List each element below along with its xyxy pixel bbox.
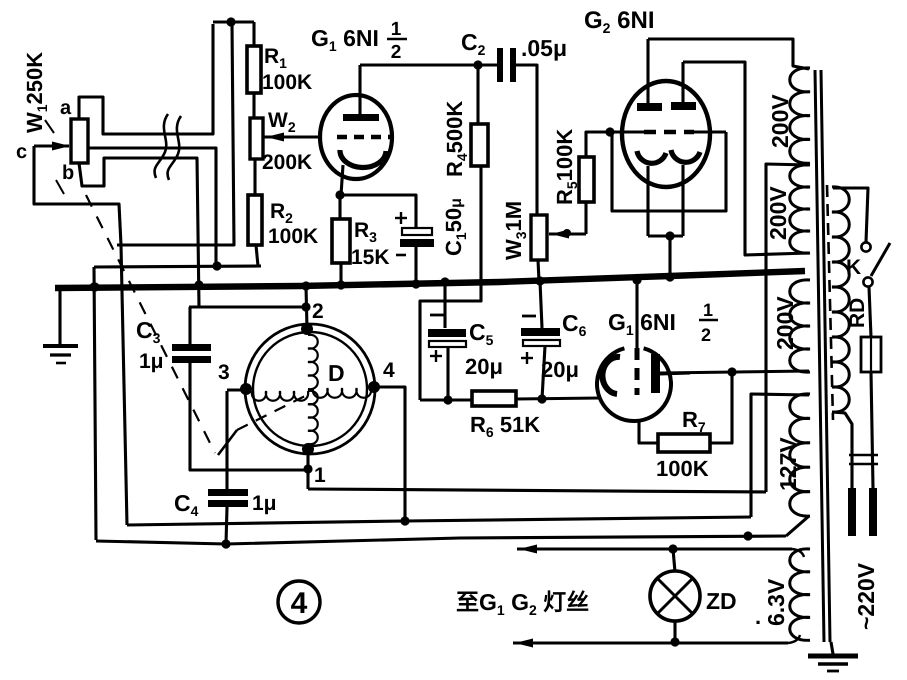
svg-text:20μ: 20μ	[541, 357, 579, 382]
svg-text:100K: 100K	[262, 71, 312, 94]
switch K contact top	[861, 242, 870, 251]
coil D pin 2 blob	[301, 323, 313, 335]
svg-text:a: a	[60, 97, 72, 119]
wire R2 bottom down	[256, 245, 258, 266]
potentiometer W1 body	[71, 119, 88, 163]
svg-text:6.3V: 6.3V	[763, 578, 789, 626]
label D	[328, 360, 345, 386]
wire W1 wiper c with arrow	[34, 142, 70, 151]
ground symbol left	[43, 346, 78, 363]
junction W3/C6 bus node	[535, 276, 544, 285]
junction lineB-pin4	[400, 516, 409, 525]
wire 127V top to line B	[751, 394, 809, 517]
label C3 value 1u	[139, 350, 164, 373]
lamp ZD cross	[658, 579, 692, 613]
label C1 50u (rotated)	[441, 198, 469, 256]
wire pin4 to line B	[374, 387, 405, 521]
junction pin1 node	[303, 464, 312, 473]
ground symbol transformer	[808, 656, 858, 671]
wire pin2 to bus	[306, 286, 307, 329]
svg-text:1: 1	[314, 464, 326, 487]
wire R1 bottom to W2 top	[252, 93, 255, 118]
resistor R7 body	[658, 434, 710, 452]
junction wiper-b node	[212, 261, 221, 270]
wire R5 bottom	[584, 202, 587, 234]
label C4	[174, 490, 199, 519]
svg-text:K: K	[846, 256, 861, 279]
wire W1 terminal a up-over to node A vertical	[79, 24, 213, 134]
svg-text:15K: 15K	[351, 246, 390, 269]
transformer primary coil	[832, 187, 849, 412]
wire top node A horizontal	[213, 20, 254, 23]
svg-text:~220V: ~220V	[853, 562, 879, 630]
label 200V-1 (rotated)	[767, 94, 793, 148]
dashed gang line from W1	[86, 195, 215, 453]
svg-text:4: 4	[383, 359, 395, 382]
tube U3 plate lead	[660, 373, 690, 374]
label C2 value .05u	[521, 35, 567, 61]
svg-text:G2 6NI: G2 6NI	[584, 7, 655, 36]
label R2 value 100K	[268, 225, 318, 248]
transformer winding 200V-2	[790, 165, 810, 253]
transformer winding 200V-3	[790, 280, 810, 372]
svg-text:R6 51K: R6 51K	[470, 412, 540, 440]
label U3 G1 6N1 1/2	[608, 300, 718, 345]
svg-text:G1 6NI: G1 6NI	[311, 25, 379, 54]
mains plug prong right	[869, 488, 877, 536]
capacitor C1 bottom plate	[400, 239, 434, 247]
wire R4 bottom jog to R6 node	[420, 166, 481, 400]
resistor R2 body	[248, 195, 262, 245]
wire R7 right up to plate node	[710, 372, 732, 443]
label ZD	[706, 588, 737, 614]
wire core to ground	[831, 642, 833, 654]
wire C2 node down to R4	[476, 65, 479, 124]
label C2	[461, 29, 486, 58]
svg-text:200K: 200K	[262, 151, 312, 174]
switch K lever	[871, 243, 890, 276]
wire winding3 bottom to U3 plate node	[660, 371, 809, 373]
wire bus left end to ground	[58, 287, 61, 344]
junction C6-R6	[537, 394, 546, 403]
junction R3-bus	[336, 280, 345, 289]
svg-text:1μ: 1μ	[139, 350, 164, 373]
cable break squiggle 2	[168, 116, 181, 180]
tube U1 cathode lead	[341, 165, 343, 195]
coil D winding right	[313, 388, 371, 398]
junction left vertical at bus	[90, 282, 99, 291]
capacitor C1 plus sign	[395, 212, 407, 224]
wire U1 plate to C2 node	[360, 63, 497, 66]
tube U1 plate lead	[358, 65, 361, 114]
label 200V-3 (rotated)	[772, 296, 798, 350]
tube U2 G2-6N1 envelope	[622, 81, 710, 187]
capacitor C3 plates	[172, 344, 211, 363]
tube U2 plate lead right	[681, 62, 684, 102]
capacitor C5 bottom plate	[429, 341, 466, 347]
wire C2 right to W3 top	[516, 65, 537, 215]
switch K contact bottom	[863, 277, 872, 286]
tube U1 G1-6N1-1/2 envelope	[320, 95, 392, 179]
capacitor C1 minus sign	[396, 254, 406, 257]
capacitor C5 plus	[430, 350, 442, 362]
mains plug bars	[849, 455, 878, 464]
junction U3 grid bus	[632, 275, 641, 284]
transformer winding 127V	[790, 394, 810, 516]
resistor R6 body	[472, 391, 516, 406]
label W2	[268, 109, 296, 135]
junction U2 cathode bus	[665, 272, 674, 281]
svg-text:b: b	[62, 162, 74, 184]
junction top node A	[226, 17, 235, 26]
wire U2 left plate to winding1 top	[648, 39, 809, 69]
svg-text:100K: 100K	[656, 456, 709, 481]
label C5	[469, 319, 494, 348]
wire switch to fuse	[869, 287, 871, 337]
svg-text:200V: 200V	[772, 296, 798, 350]
label C5 value 20u	[465, 354, 503, 379]
capacitor C5 minus	[430, 314, 444, 317]
svg-text:3: 3	[218, 361, 230, 384]
tube U3 envelope	[597, 348, 671, 421]
svg-text:D: D	[328, 360, 345, 386]
fuse RD body	[861, 337, 881, 372]
junction C4-lineC	[221, 539, 230, 548]
junction C1-bus	[411, 279, 420, 288]
wire W1 terminal b jog	[79, 158, 199, 307]
junction R1... pin2/bus dots group	[89, 280, 310, 291]
label b	[62, 162, 74, 184]
capacitor C6 top plate	[521, 328, 560, 336]
wire heater line 1 with arrow	[517, 545, 804, 558]
tube U2 cathode arc left	[637, 151, 666, 163]
label R3 value 15K	[351, 246, 390, 269]
label R1	[264, 45, 287, 71]
tube U2 plate bar left	[637, 103, 662, 111]
label C6 value 20u	[541, 357, 579, 382]
wire W3 bottom to bus	[538, 260, 539, 281]
wire C4 bottom lead	[226, 507, 227, 544]
transformer winding 200V-1	[790, 68, 810, 163]
wire line C (ground line)	[96, 536, 786, 544]
wire heater line 2 with arrow	[513, 635, 800, 648]
label C6	[562, 310, 587, 339]
wire U3 bottom to R7	[639, 421, 658, 443]
svg-text:2: 2	[312, 300, 324, 323]
junction G2 grid node	[605, 127, 614, 136]
wire primary bottom to plug left	[832, 412, 852, 488]
tube U1 grid dashes	[337, 135, 392, 139]
wire U2 right plate to winding2 bottom	[683, 62, 809, 255]
label K	[846, 256, 861, 279]
wire U2 cathode to bus	[668, 236, 671, 277]
tick near b	[56, 180, 64, 194]
figure number 4 circle	[278, 581, 320, 623]
svg-text:200V: 200V	[767, 94, 793, 148]
coil D winding top	[308, 335, 318, 389]
svg-text:至G1 G2 灯丝: 至G1 G2 灯丝	[456, 589, 589, 618]
label R5 100K (rotated)	[552, 129, 580, 205]
wire fuse to plug right	[871, 372, 873, 488]
lamp ZD circle	[650, 571, 700, 621]
wire pin3 left jog	[227, 388, 246, 391]
label R2	[270, 200, 293, 226]
svg-text:200V: 200V	[765, 186, 791, 240]
junction cathode node U1	[335, 190, 344, 199]
wire winding tap to line A	[766, 164, 809, 492]
wire R6 right to U3 cathode	[516, 398, 600, 399]
dashed gang line into D	[237, 396, 305, 430]
wire cathode node to C1	[340, 195, 416, 227]
resistor R4 body	[471, 124, 488, 166]
tube U1 plate bar	[343, 114, 379, 121]
svg-text:100K: 100K	[268, 225, 318, 248]
wire c-loop down-left path	[34, 146, 127, 525]
label W1 250K	[22, 52, 50, 133]
svg-text:2: 2	[701, 325, 711, 345]
wire R3 bottom to bus	[339, 263, 342, 285]
wire U3 grid to bus	[635, 283, 638, 348]
transformer core dashed line	[827, 185, 833, 420]
label R7 value 100K	[656, 456, 709, 481]
svg-text:W31M: W31M	[501, 201, 529, 260]
gang line check mark	[218, 430, 237, 455]
tube U2 grid loop rectangle	[612, 132, 726, 211]
resistor R3 body	[332, 219, 350, 263]
wire node A down to cross line	[117, 24, 234, 245]
junction U2 cathode join	[665, 231, 674, 240]
tube U3 grid dashes	[635, 348, 640, 395]
label W2 value 200K	[262, 151, 312, 174]
potentiometer W2 body	[250, 118, 263, 159]
wire C4 top lead to pin3	[225, 391, 228, 489]
svg-text:G1 6NI: G1 6NI	[608, 309, 676, 338]
resistor R5 body	[579, 157, 594, 202]
wire cathode node to R3	[338, 195, 341, 219]
wire W3 wiper arrow from R5	[549, 229, 586, 239]
wire main bus (thick)	[55, 271, 805, 288]
mains plug prong left	[848, 488, 856, 536]
tube U2 plate lead left	[646, 39, 649, 103]
wire pin1 to line A	[306, 449, 309, 489]
svg-text:2: 2	[391, 42, 402, 63]
coil D inner circle	[253, 332, 367, 446]
label G1 6N1 1/2 (top)	[311, 19, 407, 63]
label pin 4	[383, 359, 395, 382]
capacitor C2 plates	[497, 48, 516, 82]
junction line C right	[743, 531, 752, 540]
label R7	[682, 407, 706, 435]
resistor R1 body	[247, 46, 261, 93]
wire R5 top to G2 grid node	[586, 132, 610, 157]
wire R6 left segment	[420, 398, 472, 401]
label to G1 G2 filament (chinese)	[456, 589, 589, 618]
junction C3 line on pin2 wire	[301, 302, 310, 311]
wire node A to R1 top	[252, 22, 255, 46]
svg-text:4: 4	[291, 587, 308, 620]
coil D winding left	[252, 391, 308, 401]
svg-text:c: c	[16, 141, 27, 163]
wire line B (127V top to left)	[127, 517, 751, 525]
wire C6 bottom	[542, 346, 545, 399]
tube U2 plate bar right	[671, 102, 696, 110]
svg-text:1μ: 1μ	[252, 492, 277, 515]
label pin 3	[218, 361, 230, 384]
wire W2 wiper arrow from tube grid	[264, 133, 322, 142]
transformer core lines	[815, 70, 830, 642]
label 6.3V (rotated)	[755, 578, 789, 629]
svg-text:RD: RD	[846, 298, 869, 328]
label R6 51K	[470, 412, 540, 440]
coil D pin 3 blob	[240, 383, 252, 395]
capacitor C6 bottom plate	[523, 340, 560, 346]
wire W1 wiper right branch to node at y267	[88, 148, 216, 265]
svg-text:127V: 127V	[775, 437, 801, 491]
label R3	[354, 219, 377, 245]
junction lamp top	[668, 544, 677, 553]
tube U2 cathode arc right	[671, 150, 700, 162]
tube U2 grid dashed line	[610, 130, 726, 133]
capacitor C6 plus	[521, 352, 533, 364]
label C4 value 1u	[252, 492, 277, 515]
wire bus to C5	[443, 282, 446, 328]
tick near a	[45, 120, 54, 133]
junction plate-R7-winding node	[727, 367, 736, 376]
label G2 6N1	[584, 7, 655, 36]
label pin 2	[312, 300, 324, 323]
wire C1 bottom to bus	[414, 247, 417, 284]
svg-text:R4500K: R4500K	[442, 101, 470, 177]
wire left vertical (y267 line down to line C)	[94, 267, 96, 540]
label R4 500K (rotated)	[442, 101, 470, 177]
wire bus to C6	[540, 281, 542, 328]
wire C3 bottom to pin1 node	[190, 363, 308, 470]
svg-text:1: 1	[703, 300, 713, 320]
label c	[16, 141, 27, 163]
coil D pin 4 blob	[368, 381, 380, 393]
cable break squiggle 1	[155, 114, 168, 178]
svg-text:ZD: ZD	[706, 588, 737, 614]
capacitor C6 minus	[522, 315, 536, 318]
label 200V-2 (rotated)	[765, 186, 791, 240]
junction plate-C2-R4 node	[473, 60, 482, 69]
lamp ZD leads	[673, 549, 675, 642]
label W3 1M (rotated)	[501, 201, 529, 260]
junction C5 bus	[440, 277, 449, 286]
svg-text:.05μ: .05μ	[521, 35, 567, 61]
coil D pin 1 blob	[302, 443, 314, 455]
label ~220V (rotated)	[853, 562, 879, 630]
coil D winding bottom	[308, 391, 318, 444]
junction C5-R6	[443, 395, 452, 404]
label 127V (rotated)	[775, 437, 801, 491]
wire C5 bottom	[446, 347, 449, 400]
label a	[60, 97, 72, 119]
transformer winding 6.3V	[790, 549, 810, 640]
capacitor C5 top plate	[428, 329, 466, 337]
wire line A (pin1 to winding tap)	[308, 489, 766, 492]
svg-text:1: 1	[391, 19, 402, 40]
tube U3 cathode arc	[602, 357, 620, 394]
svg-text:R5100K: R5100K	[552, 129, 580, 205]
coil D outer circle	[245, 324, 375, 454]
capacitor C4 plates	[208, 489, 248, 507]
wire W2 bottom to R2 top	[253, 159, 256, 195]
potentiometer W3 body	[531, 215, 547, 260]
svg-text:20μ: 20μ	[465, 354, 503, 379]
wire primary top to switch	[833, 188, 868, 242]
svg-text:.: .	[755, 604, 761, 629]
capacitor C1 top plate	[402, 228, 432, 235]
label RD (rotated)	[846, 298, 869, 328]
wire node y267 horizontal	[94, 266, 261, 267]
wire C3 top lead	[188, 307, 191, 344]
label C3	[136, 317, 161, 346]
tube U3 plate bar	[651, 354, 660, 393]
wire 127V bottom to line C	[786, 516, 809, 536]
label R1 value 100K	[262, 71, 312, 94]
tube U1 cathode arc	[340, 150, 386, 167]
wire C3 top line	[189, 305, 306, 308]
label pin 1	[314, 464, 326, 487]
junction lamp bottom	[670, 637, 679, 646]
tube U2 cathode leads	[648, 165, 683, 236]
